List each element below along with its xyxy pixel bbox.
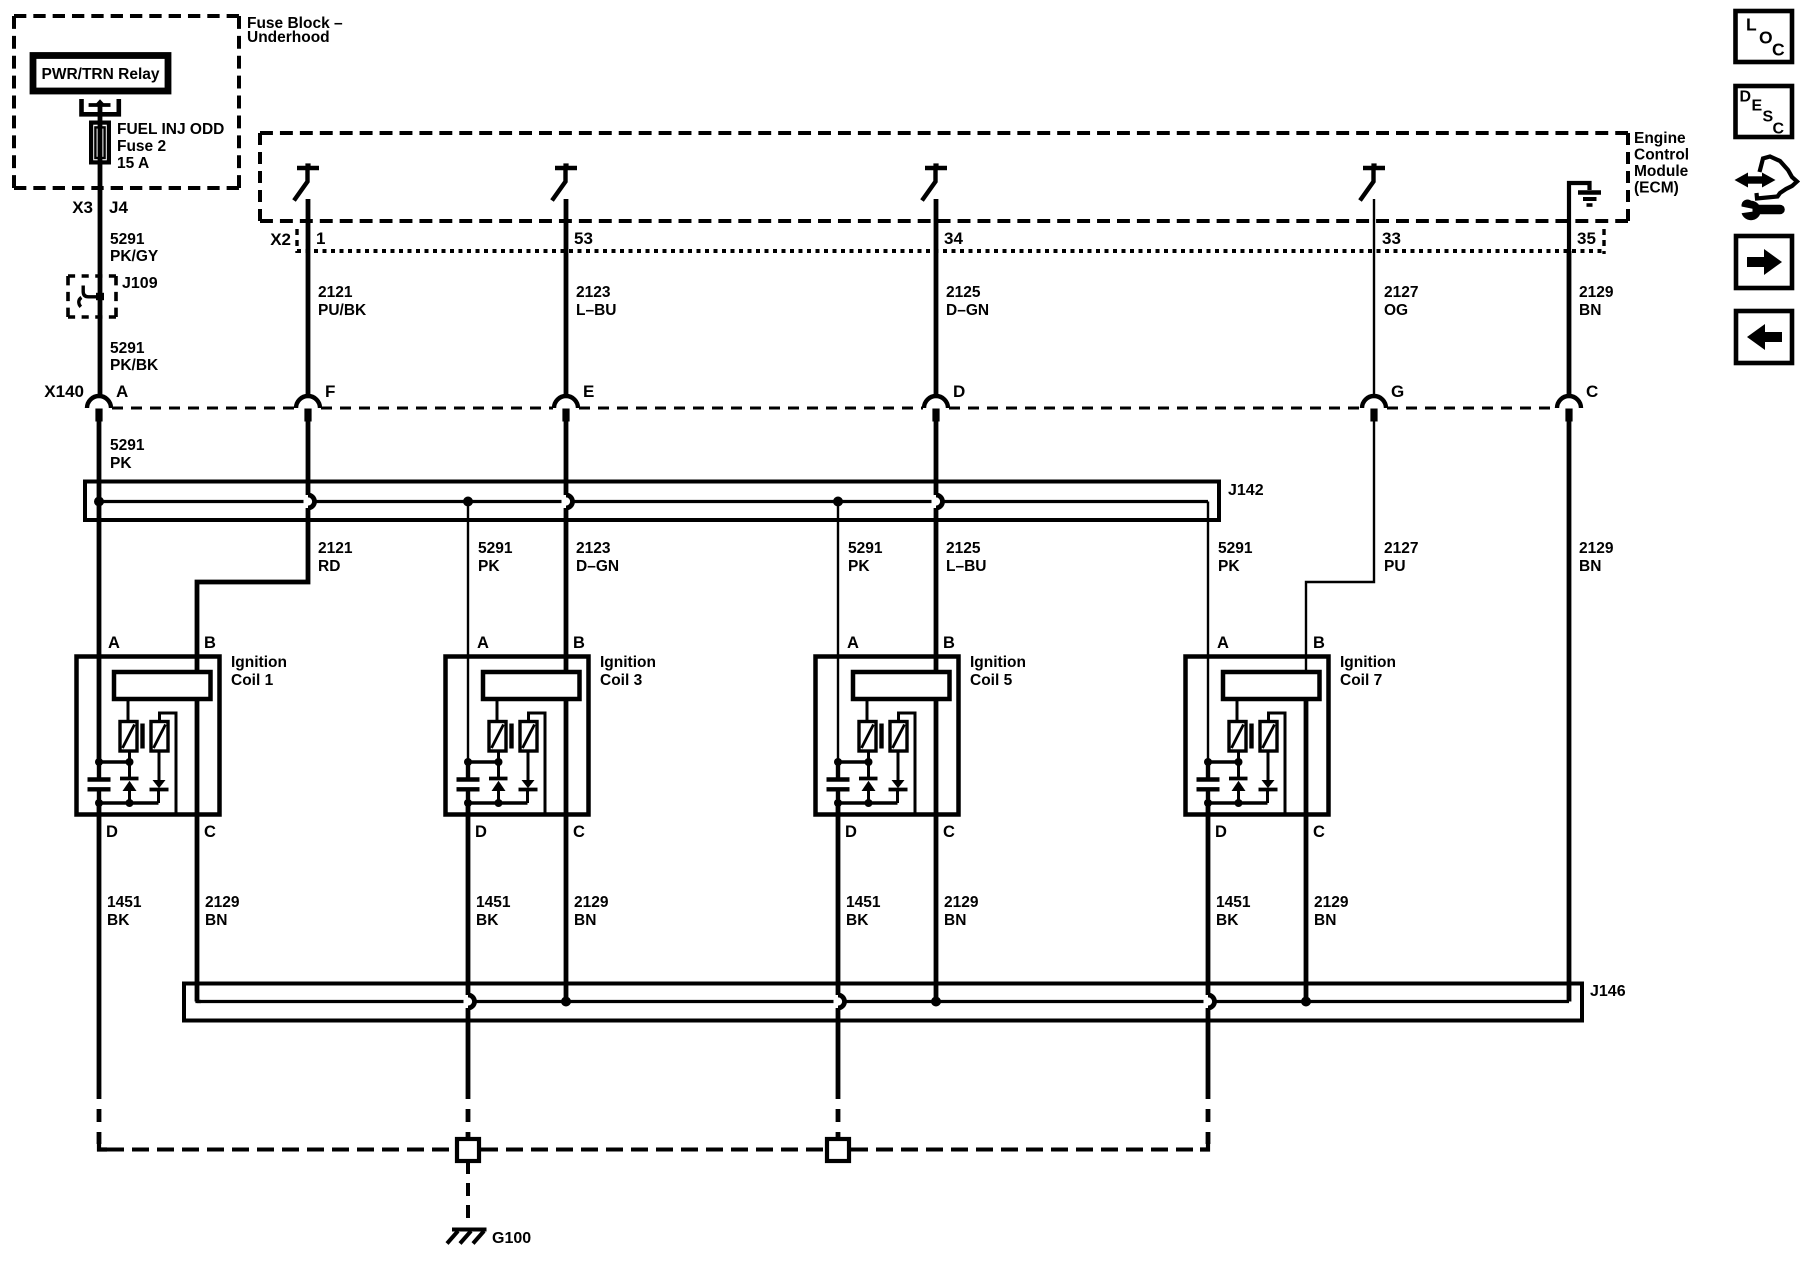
svg-text:1451: 1451 [476, 894, 511, 911]
svg-text:2129: 2129 [944, 894, 979, 911]
J142 junction dot at coil1 feed [94, 497, 104, 507]
svg-text:PU/BK: PU/BK [318, 302, 367, 319]
wire 2123 L-BU from ECM pin 53 to X140 E [564, 199, 569, 397]
svg-text:BN: BN [1579, 558, 1601, 575]
splice pack J146 (bus) [184, 984, 1582, 1021]
coil 1 primary winding [127, 700, 130, 723]
coil 3 secondary winding [520, 722, 537, 752]
svg-text:C: C [1586, 382, 1598, 401]
svg-text:2127: 2127 [1384, 540, 1418, 557]
svg-text:BN: BN [1314, 912, 1336, 929]
svg-text:Control: Control [1634, 147, 1689, 164]
svg-text:PK: PK [110, 455, 132, 472]
svg-text:Ignition: Ignition [970, 654, 1026, 671]
svg-text:2129: 2129 [1579, 540, 1614, 557]
svg-text:D: D [106, 823, 118, 841]
coil 5 ground link to pin D [838, 801, 898, 804]
svg-text:D: D [1740, 89, 1752, 106]
svg-text:D–GN: D–GN [946, 302, 989, 319]
coil 1 secondary output lead to case [160, 713, 177, 814]
J146 junction dot coil5 C [931, 997, 941, 1007]
svg-text:B: B [204, 634, 216, 652]
wire 2125 D-GN from ECM pin 34 to X140 D [934, 199, 939, 397]
svg-text:1: 1 [316, 229, 325, 248]
relay K1 PWR/TRN Relay (label box) [33, 56, 168, 92]
X140 pin A connector bump [87, 396, 111, 408]
icon double-arrow with wrench [1747, 176, 1763, 183]
svg-text:C: C [1313, 823, 1325, 841]
wire 1451 BK from coil5 pin D down [836, 803, 841, 995]
svg-text:34: 34 [944, 229, 963, 248]
svg-text:Coil 5: Coil 5 [970, 672, 1013, 689]
X2 end brackets [295, 229, 298, 253]
svg-text:A: A [477, 634, 489, 652]
coil 1 diode 1 [128, 751, 131, 777]
ignition coil 3 (module box) [446, 657, 589, 815]
svg-text:35: 35 [1577, 229, 1596, 248]
ignition coil 5 (module box) [816, 657, 959, 815]
wire 1451 BK from coil7 pin D down [1206, 803, 1211, 995]
svg-text:33: 33 [1382, 229, 1401, 248]
wire 1451 BK from coil1 pin D down [97, 803, 102, 1086]
svg-text:L–BU: L–BU [576, 302, 616, 319]
coil 1 diode 2 [158, 751, 161, 781]
wire 2129 BN trunk from X140 C down to J146 [1567, 409, 1572, 1002]
coil 3 connector strip [483, 672, 580, 699]
svg-text:BK: BK [1216, 912, 1239, 929]
icon button LOC [1736, 11, 1793, 62]
wire 5291 from relay through fuse down to X140 pin A [98, 105, 103, 397]
svg-text:C: C [1773, 121, 1785, 138]
coil 7 core bar [1249, 724, 1253, 749]
ignition coil 7 (module box) [1186, 657, 1329, 815]
coil 3 junction A to primary [468, 760, 499, 763]
coil 1 junction A to primary [99, 760, 130, 763]
svg-text:2129: 2129 [205, 894, 240, 911]
ignition coil 1 (module box) [77, 657, 220, 815]
svg-text:J142: J142 [1228, 482, 1264, 499]
coil 1 secondary winding [151, 722, 168, 752]
svg-text:RD: RD [318, 558, 340, 575]
J146 junction dot coil3 C [561, 997, 571, 1007]
fuse F1 FUEL INJ ODD Fuse 2 15 A [91, 123, 109, 163]
svg-text:Ignition: Ignition [600, 654, 656, 671]
svg-text:A: A [108, 634, 120, 652]
svg-text:Underhood: Underhood [247, 29, 330, 46]
svg-text:E: E [583, 382, 594, 401]
coil 3 internal C lead from strip to pin C [564, 700, 569, 815]
dashed ground wire from coil5 D [836, 1086, 841, 1137]
coil 7 capacitor [1206, 759, 1210, 778]
X2 connector line of ECM (dotted) [297, 249, 1604, 253]
wire 2121 PU/BK from ECM pin 1 to X140 F [306, 199, 311, 397]
svg-text:F: F [325, 382, 335, 401]
wire 2127 PU from X140 G jog left to coil7 pin B (thin) [1306, 409, 1374, 673]
svg-text:2123: 2123 [576, 284, 611, 301]
wire 2129 BN from coil1 pin C to J146 [195, 814, 200, 1002]
ECM output driver for pin 34 [925, 166, 947, 170]
dashed lead to ground G100 [466, 1161, 470, 1227]
coil 3 primary winding [496, 700, 499, 723]
svg-text:PK/BK: PK/BK [110, 357, 159, 374]
coil 5 diode 2 [897, 751, 900, 781]
coil 5 diode 1 [867, 751, 870, 777]
svg-text:15 A: 15 A [117, 155, 149, 172]
svg-text:C: C [573, 823, 585, 841]
wire 2129 BN from ECM pin 35 to X140 C [1567, 251, 1572, 397]
ECM output driver for pin 33 [1363, 166, 1385, 170]
branch wire 5291 PK to coil7 pin A (thin) [1207, 502, 1209, 760]
svg-text:1451: 1451 [846, 894, 881, 911]
svg-text:Coil 3: Coil 3 [600, 672, 643, 689]
svg-text:BN: BN [1579, 302, 1601, 319]
svg-text:X3: X3 [72, 198, 93, 217]
svg-text:5291: 5291 [110, 340, 145, 357]
coil 1 capacitor [97, 759, 101, 778]
coil 5 capacitor [836, 759, 840, 778]
svg-text:J146: J146 [1590, 983, 1626, 1000]
svg-text:G100: G100 [492, 1230, 531, 1247]
fuse block - underhood (dashed enclosure) [14, 14, 239, 18]
coil 5 junction A to primary [838, 760, 869, 763]
svg-text:2129: 2129 [1314, 894, 1349, 911]
svg-text:53: 53 [574, 229, 593, 248]
coil 1 ground link to pin D [99, 801, 159, 804]
svg-text:A: A [116, 382, 128, 401]
fuse holder clip [82, 99, 119, 114]
svg-text:2125: 2125 [946, 540, 981, 557]
svg-text:D: D [475, 823, 487, 841]
svg-text:X140: X140 [44, 382, 84, 401]
svg-text:G: G [1391, 382, 1404, 401]
coil 1 core bar [140, 724, 144, 749]
svg-text:B: B [943, 634, 955, 652]
coil 5 secondary winding [890, 722, 907, 752]
svg-text:BK: BK [107, 912, 130, 929]
J146 internal bus line [197, 1000, 464, 1003]
wire 1451 BK from coil3 pin D down [466, 803, 471, 995]
splice J109 (dashed box) [68, 274, 116, 278]
X140 pin E connector bump [554, 396, 578, 408]
svg-text:BN: BN [944, 912, 966, 929]
svg-text:2129: 2129 [574, 894, 609, 911]
svg-text:C: C [1772, 40, 1785, 60]
coil 3 diode 2 [527, 751, 530, 781]
svg-text:5291: 5291 [1218, 540, 1253, 557]
svg-text:PK: PK [848, 558, 870, 575]
coil 3 capacitor [466, 759, 470, 778]
J142 internal bus line [99, 500, 304, 503]
svg-text:2129: 2129 [1579, 284, 1614, 301]
svg-text:D–GN: D–GN [576, 558, 619, 575]
svg-text:Module: Module [1634, 163, 1689, 180]
svg-text:L–BU: L–BU [946, 558, 986, 575]
coil 5 connector strip [853, 672, 950, 699]
Engine Control Module (ECM) dashed enclosure [260, 131, 1628, 135]
svg-text:D: D [845, 823, 857, 841]
J146 junction dot coil7 C [1301, 997, 1311, 1007]
svg-text:PK: PK [1218, 558, 1240, 575]
ECM output driver for pin 1 [297, 166, 319, 170]
coil 1 internal C lead from strip to pin C [195, 700, 200, 815]
svg-text:2127: 2127 [1384, 284, 1418, 301]
wire 2125 from X140 D jog over J142 down to coil5 pin B [934, 409, 939, 496]
coil 7 diode 2 [1267, 751, 1270, 781]
svg-text:J4: J4 [109, 198, 128, 217]
svg-text:(ECM): (ECM) [1634, 180, 1679, 197]
svg-text:BN: BN [205, 912, 227, 929]
svg-text:C: C [943, 823, 955, 841]
X140 in-line connector (dashed line) [112, 407, 295, 410]
icon button back arrow [1736, 311, 1792, 363]
svg-text:X2: X2 [270, 230, 291, 249]
ground bus dashed line [107, 1148, 455, 1152]
coil 5 primary winding [866, 700, 869, 723]
svg-text:BN: BN [574, 912, 596, 929]
coil 7 ground link to pin D [1208, 801, 1268, 804]
ground symbol G100 [452, 1228, 487, 1232]
svg-text:Coil 7: Coil 7 [1340, 672, 1382, 689]
svg-text:5291: 5291 [848, 540, 883, 557]
coil 7 secondary output lead to case [1269, 713, 1286, 814]
X140 pin D connector bump [924, 396, 948, 408]
svg-text:A: A [847, 634, 859, 652]
svg-text:PK/GY: PK/GY [110, 248, 159, 265]
coil 7 junction A to primary [1208, 760, 1239, 763]
ECM internal ground at pin 35 [1569, 183, 1590, 255]
icon button DESC [1736, 86, 1793, 137]
svg-text:B: B [1313, 634, 1325, 652]
svg-text:BK: BK [476, 912, 499, 929]
dashed ground wire from coil7 D [1206, 1086, 1211, 1144]
wire 2127 OG from ECM pin 33 to X140 G (thin) [1373, 199, 1375, 397]
svg-text:5291: 5291 [110, 437, 145, 454]
svg-text:PU: PU [1384, 558, 1406, 575]
coil 3 core bar [509, 724, 513, 749]
svg-text:L: L [1746, 15, 1757, 35]
wire 2121 from X140 F jog over J142 then to coil1 pin B [306, 409, 311, 496]
svg-text:2123: 2123 [576, 540, 611, 557]
wire 5291 PK from X140 A through J142 to coil1 pin A [97, 409, 102, 760]
coil 7 internal C lead from strip to pin C [1304, 700, 1309, 815]
svg-text:2121: 2121 [318, 284, 353, 301]
svg-text:Coil 1: Coil 1 [231, 672, 274, 689]
coil 7 primary winding [1236, 700, 1239, 723]
ground tie point square at coil3 leg [457, 1139, 479, 1161]
svg-text:A: A [1217, 634, 1229, 652]
coil 5 secondary output lead to case [899, 713, 916, 814]
svg-text:B: B [573, 634, 585, 652]
svg-text:Engine: Engine [1634, 130, 1686, 147]
svg-text:1451: 1451 [1216, 894, 1251, 911]
svg-text:5291: 5291 [110, 231, 145, 248]
coil 7 secondary winding [1260, 722, 1277, 752]
svg-text:1451: 1451 [107, 894, 142, 911]
J146 corner from coil1 C wire [197, 998, 201, 1002]
icon button forward arrow [1736, 236, 1792, 288]
svg-text:D: D [953, 382, 965, 401]
svg-text:PWR/TRN Relay: PWR/TRN Relay [42, 66, 160, 83]
coil 3 ground link to pin D [468, 801, 528, 804]
branch wire 5291 PK to coil5 pin A (thin) [837, 502, 839, 760]
coil 1 connector strip [114, 672, 211, 699]
svg-text:FUEL INJ ODD: FUEL INJ ODD [117, 121, 224, 138]
splice symbol J109 [83, 286, 100, 297]
J142 junction dot at coil3 feed [463, 497, 473, 507]
coil 7 connector strip [1223, 672, 1320, 699]
coil 3 secondary output lead to case [529, 713, 546, 814]
coil 5 internal C lead from strip to pin C [934, 700, 939, 815]
coil 5 core bar [879, 724, 883, 749]
svg-text:E: E [1752, 98, 1763, 115]
dashed ground wire from coil1 D [97, 1086, 102, 1144]
X140 pin G connector bump [1362, 396, 1386, 408]
svg-text:O: O [1759, 28, 1773, 48]
svg-text:D: D [1215, 823, 1227, 841]
svg-text:Ignition: Ignition [1340, 654, 1396, 671]
splice pack J142 (bus) [85, 482, 1219, 521]
wire 2123 from X140 E jog over J142 down to coil3 pin B [564, 409, 569, 496]
svg-text:PK: PK [478, 558, 500, 575]
svg-text:BK: BK [846, 912, 869, 929]
svg-text:2121: 2121 [318, 540, 353, 557]
svg-text:C: C [204, 823, 216, 841]
wire 2129 BN from coil5 pin C to J146 [934, 814, 939, 1002]
coil 3 diode 1 [497, 751, 500, 777]
X140 pin C connector bump [1557, 396, 1581, 408]
branch wire 5291 PK to coil3 pin A (thin) [467, 502, 469, 760]
X140 pin F connector bump [296, 396, 320, 408]
ground tie point square at coil5 leg [827, 1139, 849, 1161]
wire 2129 BN from coil7 pin C to J146 [1304, 814, 1309, 1002]
wire 2129 BN from coil3 pin C to J146 [564, 814, 569, 1002]
ECM output driver for pin 53 [555, 166, 577, 170]
svg-text:Ignition: Ignition [231, 654, 287, 671]
svg-text:J109: J109 [122, 275, 158, 292]
J142 junction dot at coil5 feed [833, 497, 843, 507]
coil 7 diode 1 [1237, 751, 1240, 777]
svg-text:Fuse 2: Fuse 2 [117, 138, 166, 155]
svg-text:5291: 5291 [478, 540, 513, 557]
svg-text:OG: OG [1384, 302, 1408, 319]
svg-text:2125: 2125 [946, 284, 981, 301]
dashed ground wire from coil3 D [466, 1086, 471, 1137]
